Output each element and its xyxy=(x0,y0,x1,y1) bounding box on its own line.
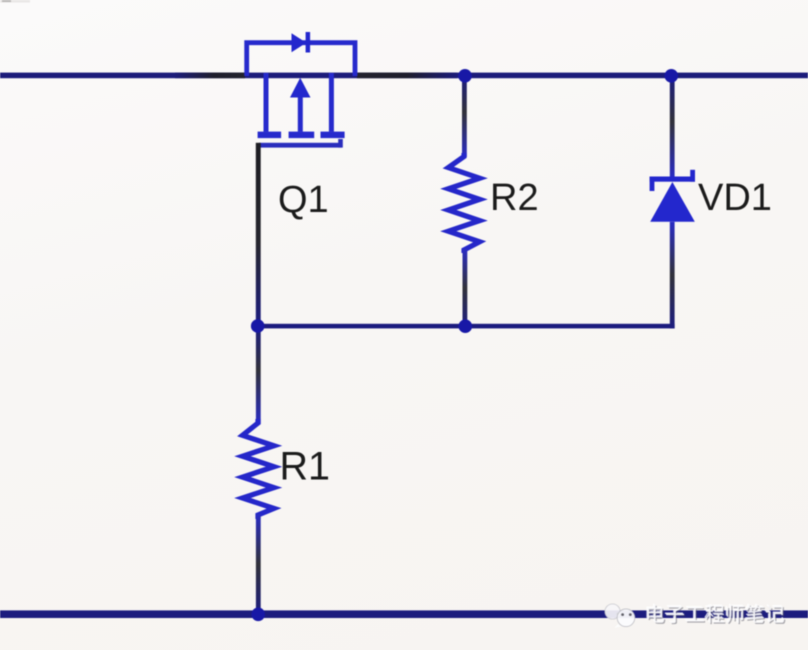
junction: node rail / R2 xyxy=(459,319,473,333)
junction: node rail / gate-R1 xyxy=(251,319,265,333)
label R2 xyxy=(490,177,539,219)
svg-text:R1: R1 xyxy=(280,445,331,489)
resistor R1 xyxy=(243,419,275,519)
svg-text:R2: R2 xyxy=(490,177,539,219)
junction: top rail / VD1 xyxy=(665,69,679,83)
svg-text:VD1: VD1 xyxy=(698,177,772,219)
watermark logo (chat bubbles) xyxy=(605,604,635,628)
wire: VD1 top lead xyxy=(670,76,675,178)
wire: gate lead from Q1 down to node xyxy=(256,143,261,326)
label Q1 xyxy=(278,179,329,221)
wire: VD1 bottom lead xyxy=(670,222,675,329)
body diode of Q1 (loop with diode) xyxy=(247,32,355,76)
transistor Q1 (P-channel MOSFET) xyxy=(258,73,345,148)
stray mark top-left corner xyxy=(0,0,30,3)
wire: R2 bottom lead xyxy=(463,249,468,327)
junction: top rail / R2 xyxy=(458,69,472,83)
svg-text:Q1: Q1 xyxy=(278,179,329,221)
resistor R2 xyxy=(448,153,479,253)
zener diode VD1 xyxy=(650,170,695,222)
wire: R2 top lead xyxy=(462,76,467,157)
wire: R1 top lead xyxy=(256,326,261,424)
wire: gate/divider node rail xyxy=(256,324,675,329)
wire: bottom rail xyxy=(0,610,808,618)
junction: bottom rail / R1 xyxy=(251,608,265,622)
watermark text 电子工程师笔记 (vector glyphs) xyxy=(646,604,785,625)
label VD1 xyxy=(698,177,772,219)
wire: R1 bottom lead xyxy=(256,514,261,615)
wire: top supply rail xyxy=(0,73,808,79)
label R1 xyxy=(280,445,331,489)
